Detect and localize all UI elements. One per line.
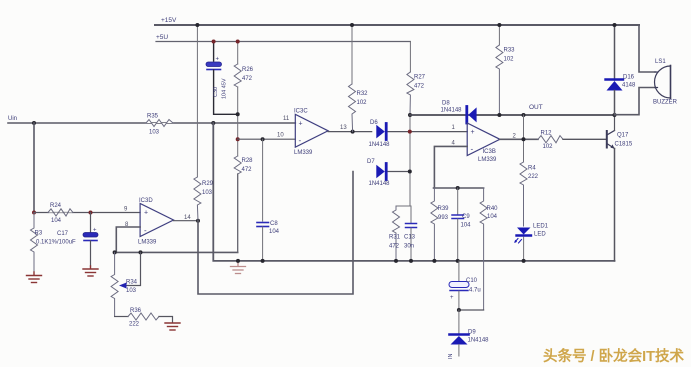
svg-text:R29: R29 [202,181,214,187]
wire IC3D -in feedback [116,227,140,252]
junction C8 top [261,137,265,141]
svg-text:R3: R3 [35,231,43,237]
svg-text:103: 103 [202,190,213,196]
svg-text:1N4148: 1N4148 [468,338,490,344]
svg-text:1: 1 [452,125,456,131]
potentiometer R34 [111,252,118,316]
svg-text:102: 102 [543,144,554,150]
resistor R33 [496,45,503,115]
junction x237 y114 [236,112,240,116]
svg-text:OUT: OUT [529,104,543,111]
junction +5U x213 [212,40,216,44]
svg-text:C10: C10 [466,278,478,284]
resistor R32 [349,84,356,132]
diode D6 [376,125,385,139]
op-amp IC3B [467,123,500,156]
svg-text:C30: C30 [213,87,219,97]
wire IC3C out [328,131,372,133]
resistor R39 [431,188,438,261]
svg-text:C1815: C1815 [615,142,633,148]
svg-text:R40: R40 [487,206,499,212]
junction input x34 [32,121,36,125]
net +5U rail [156,41,410,43]
junction +15V x352 [350,23,354,27]
svg-text:C8: C8 [270,221,278,227]
wiper wire R34 [126,252,141,285]
wire R36 to ground [159,317,173,323]
svg-text:104 45V: 104 45V [222,78,228,99]
junction x34 y212 [32,211,36,215]
wire x523 OUT to IC3B out [523,115,525,162]
svg-text:Uin: Uin [8,116,17,122]
svg-text:+: + [450,295,454,301]
svg-text:+15V: +15V [161,17,177,24]
wire divider x237 [237,42,239,65]
svg-text:103: 103 [149,130,160,136]
svg-text:LM339: LM339 [294,150,313,156]
junction +15V x499 [497,23,501,27]
resistor R29 [194,177,201,221]
svg-text:9: 9 [124,207,128,213]
svg-text:D16: D16 [623,75,635,81]
bus A [115,251,238,253]
svg-text:R27: R27 [414,75,426,81]
junction x410 d6 [408,130,412,134]
junction OUT x523 [522,113,526,117]
svg-text:R24: R24 [50,203,62,209]
diode D8 [468,107,476,122]
svg-text:C9: C9 [462,214,470,220]
svg-text:102: 102 [357,100,368,106]
capacitor C13 [410,206,412,223]
junction busA wiper [139,250,143,254]
svg-text:-: - [144,226,147,235]
wire R32 from +15V [351,25,353,84]
junction busB C9 [456,259,460,263]
ground below R3 [27,272,42,283]
svg-text:472: 472 [242,76,253,82]
svg-text:R31: R31 [389,235,401,241]
wire R28 to bus A [237,174,239,252]
svg-text:30n: 30n [404,244,414,250]
svg-text:10: 10 [277,133,284,139]
net OUT line [410,114,615,116]
wire R31 C13 top bar [396,205,411,207]
svg-text:D6: D6 [370,120,378,126]
svg-text:13: 13 [340,125,347,131]
capacitor C30 branch [213,42,215,62]
svg-text:+: + [144,210,148,217]
wiper arrow R34 [119,283,127,289]
wire C30 to node [214,70,238,114]
junction IC3B out [522,137,526,141]
wire lower-left horizontal [34,212,140,214]
junction busB x262 [261,259,265,263]
svg-text:104: 104 [269,229,280,235]
svg-text:R32: R32 [357,91,369,97]
wire rail to speaker top [639,25,655,72]
transistor Q17 [606,131,608,148]
svg-text:+: + [93,228,97,234]
svg-text:D9: D9 [468,330,476,336]
diode D16 [606,78,624,80]
junction +15V x614 [613,23,617,27]
junction busB C13 [409,259,413,263]
svg-text:R36: R36 [130,308,142,314]
junction x410 out [408,113,412,117]
svg-text:BUZZER: BUZZER [653,100,678,106]
op-amp IC3C [295,114,328,147]
wire D6 to node [388,131,467,133]
resistor R12 [538,136,563,143]
ground on bus B [231,261,246,274]
resistor R4 [520,162,527,226]
speaker LS1 buzzer [670,66,672,99]
svg-text:D8: D8 [442,101,450,107]
wire R26 to R28 [237,87,239,156]
wire R40 bottom corner to C10 bottom [459,309,484,311]
svg-text:R39: R39 [438,206,450,212]
svg-text:104: 104 [487,214,498,220]
svg-text:LM339: LM339 [138,240,157,246]
svg-text:D7: D7 [367,159,375,165]
svg-text:R12: R12 [541,131,553,137]
svg-text:IC3B: IC3B [483,149,496,155]
wire input line Uin to IC3C +in [8,122,295,124]
svg-text:0.1K1%/100uF: 0.1K1%/100uF [36,240,76,246]
svg-text:472: 472 [242,167,253,173]
wire R12 to Q17 base [563,138,607,140]
svg-text:LS1: LS1 [655,59,666,65]
junction busB x238 [236,259,240,263]
wire D16 branch from +15V [614,25,616,80]
wire LED1 to busB [523,237,525,261]
svg-text:1N4148: 1N4148 [441,108,463,114]
svg-text:R26: R26 [242,67,254,73]
op-amp IC3D [140,204,173,237]
junction C10 bottom [457,308,461,312]
resistor R24 [48,209,73,216]
svg-text:104: 104 [461,223,472,229]
wire x213 input to bus B [213,123,614,261]
junction input x213 [211,121,215,125]
diode D7 [376,165,385,179]
capacitor C9 [457,188,459,214]
junction IC3D out [196,219,200,223]
wire D9 bottom [458,345,460,357]
LED LED1 [517,228,531,235]
svg-text:LED: LED [534,232,546,238]
svg-text:C17: C17 [57,231,69,237]
svg-text:4.7u: 4.7u [469,288,481,294]
svg-text:+: + [216,57,220,63]
junction OUT x499 [497,113,501,117]
svg-text:R34: R34 [126,280,138,286]
svg-text:+: + [471,129,475,136]
capacitor C10 [458,261,460,281]
svg-text:+: + [299,121,303,128]
wire speaker bottom return [615,88,656,115]
svg-text:104: 104 [51,218,62,224]
capacitor C8 [257,223,269,227]
wire pot bottom to R36 [115,316,128,318]
wire D7 to node [388,171,410,173]
junction busA pot top [113,250,117,254]
junction IC3C out [351,130,355,134]
junction busB R39 [432,259,436,263]
resistor R26 [234,64,241,87]
svg-text:1N4148: 1N4148 [369,181,391,187]
junction bar C9 [456,186,460,190]
ground below C17 [83,266,98,276]
svg-text:103: 103 [126,288,137,294]
svg-text:Q17: Q17 [617,133,629,139]
svg-text:IC3D: IC3D [139,198,153,204]
svg-text:LED1: LED1 [533,224,549,230]
svg-text:R28: R28 [242,158,254,164]
wire pull-up R29 from +15V [196,25,198,177]
junction busB LED [522,259,526,263]
wire +5U corner down x410 [409,42,411,73]
wire feedback loop down-right-up [198,172,353,295]
wire D16 to collector node [614,91,616,116]
svg-text:4148: 4148 [622,83,636,89]
wire C8 branch [262,139,264,221]
svg-text:1N4148: 1N4148 [369,142,391,148]
junction busB R31 [394,259,398,263]
junction x410 d7 [408,170,412,174]
svg-text:11: 11 [283,116,290,122]
resistor R28 [234,156,241,174]
svg-text:R33: R33 [504,48,516,54]
net +15V rail [155,24,639,26]
capacitor C30 [206,62,222,67]
junction collector node [613,113,617,117]
junction x90 y212 [89,211,93,215]
resistor R3 [31,213,38,273]
svg-text:222: 222 [528,174,539,180]
wire IC3B out [500,138,538,140]
svg-text:102: 102 [504,57,515,63]
svg-text:-: - [299,136,302,145]
wire IC3C -in reference [238,138,296,140]
wire collector up / emitter down [614,115,616,131]
svg-text:IC3C: IC3C [294,109,308,115]
wire RC network top bar [434,187,484,189]
wire C8 to bus B [262,227,264,261]
wire IC3D output [174,220,199,222]
svg-text:R35: R35 [147,114,159,120]
wire x410 node chain [409,115,411,206]
resistor R31 [393,206,400,261]
ground right of R36 [165,323,180,330]
svg-text:IN: IN [448,353,454,359]
svg-text:LM339: LM339 [478,157,497,163]
resistor R40 [480,188,487,310]
svg-text:472: 472 [414,84,425,90]
resistor R27 [407,72,414,115]
junction x237 y139 [236,137,240,141]
svg-text:C13: C13 [404,235,416,241]
junction +15V x197 [195,23,199,27]
svg-text:222: 222 [129,322,140,328]
wire IC3B -in [434,146,467,188]
junction +5U x237 [236,40,240,44]
wire left column x34 down [33,123,35,213]
resistor R36 [128,313,159,320]
svg-text:R4: R4 [528,166,536,172]
svg-text:472: 472 [389,244,400,250]
resistor R35 [146,120,173,127]
wire R33 from +15V [498,25,500,45]
diode D9 [458,310,460,334]
svg-text:+5U: +5U [156,34,168,41]
svg-text:993: 993 [438,215,449,221]
watermark [543,345,691,366]
svg-text:-: - [471,145,474,154]
